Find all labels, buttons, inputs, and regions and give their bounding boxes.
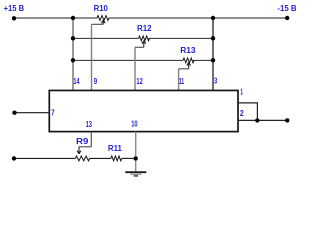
svg-text:R11: R11 — [108, 143, 122, 153]
svg-text:R10: R10 — [94, 3, 108, 13]
svg-text:14: 14 — [73, 76, 79, 86]
svg-text:+15 В: +15 В — [4, 3, 25, 13]
wiper arrow of R9 (down) — [77, 147, 81, 154]
wire rail2 — [73, 37, 213, 39]
svg-text:3: 3 — [214, 76, 217, 86]
wire trunk A (pin 14 vertical) — [72, 18, 74, 90]
wire R13 wiper to pin 11 — [179, 68, 189, 70]
node +15V terminal — [12, 16, 16, 20]
svg-text:9: 9 — [94, 76, 98, 86]
node rail1/trunkB junction — [211, 16, 215, 20]
svg-text:R9: R9 — [76, 136, 89, 146]
resistor R13 (potentiometer in rail3) — [183, 58, 194, 63]
resistor R11 — [111, 156, 122, 161]
resistor R12 (potentiometer in rail2) — [139, 36, 150, 41]
wiper arrow of R12 to pin 12 — [142, 41, 146, 48]
wire rail3 — [73, 59, 213, 61]
wiper arrow of R13 to pin 11 — [187, 62, 191, 68]
node pin7 input terminal — [12, 111, 16, 115]
wiper arrow of R10 to pin 9 — [101, 20, 105, 24]
node -15V terminal — [285, 16, 289, 20]
resistor R9 (potentiometer, wiper from pin 13) — [75, 156, 89, 161]
op-amp / DAC IC body U1 — [49, 90, 238, 131]
wire bottom chain — [14, 157, 136, 159]
svg-text:10: 10 — [131, 119, 138, 129]
svg-text:11: 11 — [179, 76, 185, 86]
wire trunk B (pin 3 vertical) — [212, 18, 214, 90]
wire R10 wiper to pin 9 — [92, 23, 104, 25]
node rail3/trunkA junction — [71, 58, 75, 62]
node rail2/trunkB junction — [211, 36, 215, 40]
node rail3/trunkB junction — [211, 58, 215, 62]
wire pin 2 output — [238, 119, 288, 121]
ground symbol — [125, 172, 146, 176]
node ground junction — [134, 156, 138, 160]
wire R12 wiper to pin 12 — [135, 46, 144, 48]
svg-text:2: 2 — [240, 108, 244, 118]
node output terminal — [285, 118, 289, 122]
node rail2/trunkA junction — [71, 36, 75, 40]
svg-text:R12: R12 — [137, 23, 152, 33]
svg-text:12: 12 — [136, 76, 143, 86]
node output junction — [255, 118, 259, 122]
node bottom-left terminal — [12, 156, 16, 160]
wire pin 7 input — [15, 112, 50, 114]
wire pin 10 to ground — [135, 132, 137, 172]
svg-text:-15 В: -15 В — [277, 3, 296, 13]
svg-text:1: 1 — [240, 87, 243, 97]
node rail1/trunkA junction — [71, 16, 75, 20]
wire pin 13 to R9 wiper — [90, 132, 92, 147]
svg-text:13: 13 — [86, 119, 93, 129]
wire pin 1 to pin 2 loop — [238, 103, 258, 121]
resistor R10 (potentiometer in top rail) — [97, 16, 109, 21]
wire rail1 +15V to -15V (top rail) — [14, 17, 287, 19]
svg-text:R13: R13 — [180, 45, 196, 55]
svg-text:7: 7 — [51, 107, 55, 117]
